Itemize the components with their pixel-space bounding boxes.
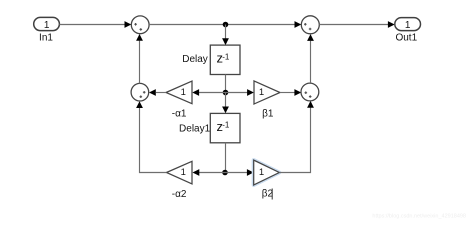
svg-text:1: 1: [259, 87, 264, 98]
svg-text:-1: -1: [222, 52, 230, 61]
svg-text:1: 1: [181, 87, 186, 98]
junction J2: [223, 90, 229, 96]
wire b1 to sum S3: [280, 89, 301, 96]
svg-text:-α2: -α2: [172, 189, 187, 200]
svg-text:-α1: -α1: [172, 109, 187, 120]
gain -a1 (points left): [166, 81, 192, 104]
gain b1 (points right): [254, 81, 280, 104]
sum S3 (right-middle): [301, 83, 319, 101]
svg-text:Out1: Out1: [395, 33, 417, 44]
inport In1: [34, 17, 60, 31]
wire S2 up to S1: [136, 34, 143, 84]
wire J3 to gain -a2: [193, 169, 226, 176]
sum S4 (top-right): [301, 16, 319, 34]
wire -a1 to sum S2: [149, 89, 166, 96]
wire J2 to gain b1: [226, 89, 254, 96]
sum S1 (top-left): [131, 16, 149, 34]
label b2 with edit cursor: [262, 189, 274, 200]
wire S3 up to S4: [307, 34, 314, 83]
svg-text:1: 1: [259, 167, 264, 178]
svg-text:In1: In1: [39, 33, 53, 44]
svg-text:β1: β1: [262, 108, 274, 119]
delay block Delay1: [210, 113, 240, 142]
junction J3: [222, 170, 228, 176]
wire b2 to S3 bottom: [279, 101, 314, 173]
delay block Delay: [210, 45, 240, 74]
wire S1 to S4 (top run): [149, 21, 301, 28]
svg-text:-1: -1: [222, 121, 230, 130]
wire Delay1 to junction J3: [225, 143, 227, 173]
wire J3 to gain b2: [225, 169, 254, 176]
junction J1: [223, 22, 229, 28]
gain -a2 (points left): [167, 161, 193, 184]
wire J2 down to Delay1: [222, 93, 229, 114]
gain b2 (selected, blue halo, points right): [254, 160, 280, 185]
wire In1 to sum S1: [59, 21, 131, 28]
svg-text:https://blog.csdn.net/weixin_4: https://blog.csdn.net/weixin_42918498: [372, 214, 466, 220]
wire J1 down to Delay: [222, 25, 229, 46]
sum S2 (left-middle): [131, 83, 149, 101]
svg-text:Delay: Delay: [182, 54, 208, 65]
svg-text:1: 1: [181, 167, 186, 178]
svg-text:1: 1: [405, 20, 411, 31]
wire J2 to gain -a1: [192, 89, 225, 96]
outport Out1: [395, 18, 421, 31]
wire S4 to Out1: [319, 21, 394, 28]
wire Delay to junction J2: [225, 75, 227, 93]
svg-text:1: 1: [44, 20, 50, 31]
wire -a2 to S2 bottom (feedback): [136, 101, 166, 172]
svg-text:Delay1: Delay1: [179, 123, 211, 134]
